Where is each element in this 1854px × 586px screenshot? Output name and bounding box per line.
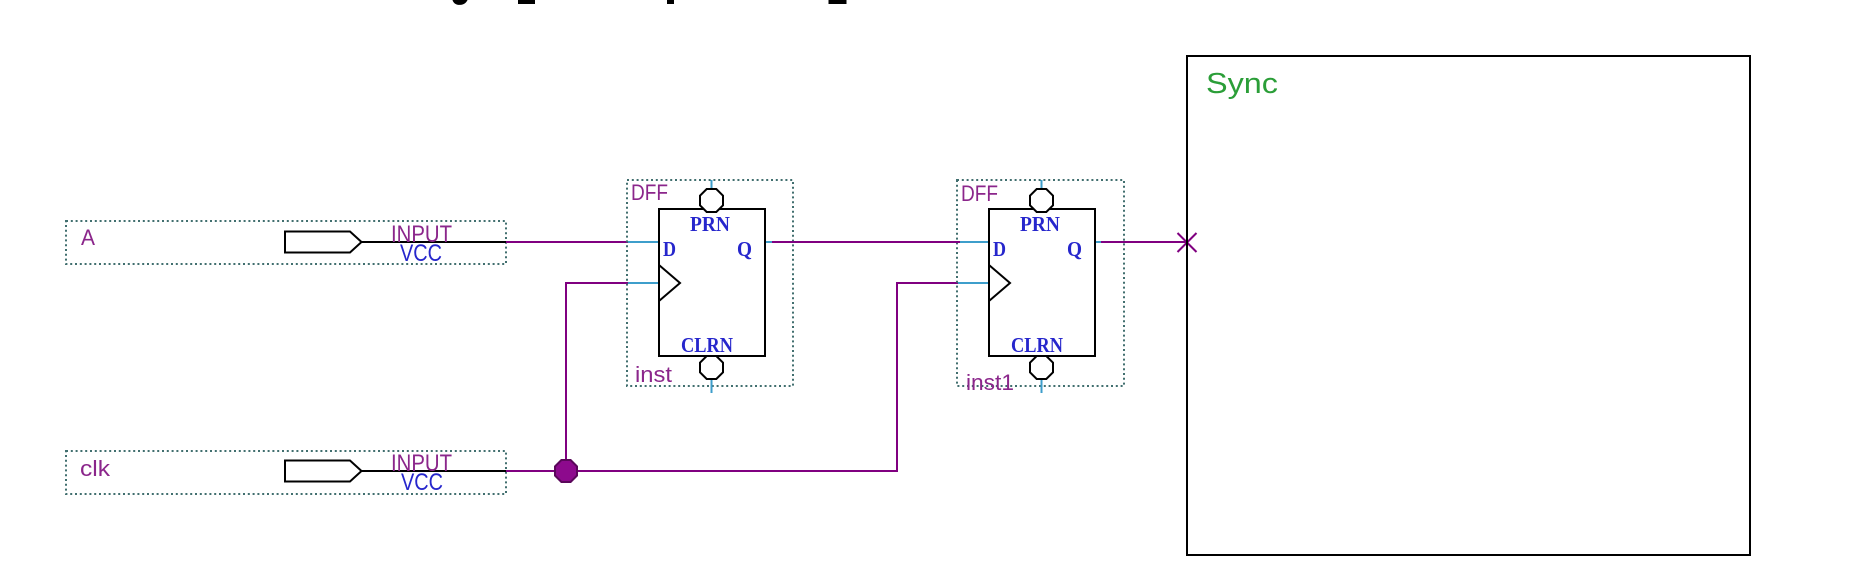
input pin clk selection box <box>66 451 506 494</box>
top clipped text fragment 2 <box>518 0 535 4</box>
DFF inst body <box>659 209 765 356</box>
svg-text:D: D <box>993 237 1006 261</box>
svg-text:CLRN: CLRN <box>1011 333 1063 357</box>
top clipped text fragment 3 <box>667 0 674 4</box>
svg-text:inst: inst <box>635 362 672 387</box>
svg-text:PRN: PRN <box>690 212 730 236</box>
svg-text:A: A <box>81 225 95 250</box>
DFF inst1 pin stub D (cyan) <box>958 241 989 243</box>
svg-text:inst1: inst1 <box>966 370 1014 395</box>
DFF inst clock triangle <box>659 265 680 301</box>
svg-text:PRN: PRN <box>1020 212 1060 236</box>
wire net clk: riser to DFF inst1 clock <box>897 283 959 471</box>
svg-text:VCC: VCC <box>401 469 443 496</box>
wire net q1: DFF inst Q to DFF inst1 D <box>772 241 960 243</box>
svg-text:CLRN: CLRN <box>681 333 733 357</box>
wire net A: pin A to DFF inst D <box>506 241 630 243</box>
DFF inst1 pin stub Q (cyan) <box>1095 241 1124 243</box>
DFF inst1 pin stub clock (cyan) <box>958 282 989 284</box>
top clipped text fragment 1 (descender of y) <box>453 0 468 5</box>
DFF inst1 body <box>989 209 1095 356</box>
input pin clk stub (black) <box>362 470 509 472</box>
DFF inst1 pin stub PRN (cyan) <box>1041 180 1043 190</box>
wire net clk: pin clk horizontal <box>506 470 898 472</box>
DFF inst pin stub clock (cyan) <box>628 282 659 284</box>
svg-text:VCC: VCC <box>400 240 442 267</box>
top clipped text fragment 4 <box>829 0 847 4</box>
DFF inst pin stub PRN (cyan) <box>711 180 713 190</box>
wire net clk: riser to DFF inst clock <box>566 283 630 471</box>
DFF inst selection box <box>627 180 793 386</box>
input pin A symbol <box>285 232 362 253</box>
DFF inst pin stub Q (cyan) <box>765 241 793 243</box>
DFF inst pin stub D (cyan) <box>628 241 659 243</box>
DFF inst CLRN bubble <box>700 356 723 379</box>
input pin clk symbol <box>285 461 362 482</box>
DFF inst pin stub CLRN (cyan) <box>711 378 713 393</box>
input pin A selection box <box>66 221 506 264</box>
DFF inst1 CLRN bubble <box>1030 356 1053 379</box>
block Sync outline <box>1187 56 1750 555</box>
DFF inst1 PRN bubble <box>1030 189 1053 212</box>
svg-text:DFF: DFF <box>961 181 998 206</box>
svg-text:Q: Q <box>737 237 752 261</box>
DFF inst1 selection box <box>957 180 1124 386</box>
svg-text:DFF: DFF <box>631 180 668 205</box>
wire net out: DFF inst1 Q to Sync <box>1101 241 1187 243</box>
svg-text:Sync: Sync <box>1206 68 1278 100</box>
svg-text:clk: clk <box>80 456 111 481</box>
DFF inst PRN bubble <box>700 189 723 212</box>
svg-text:D: D <box>663 237 676 261</box>
svg-text:Q: Q <box>1067 237 1082 261</box>
input pin A stub (black) <box>362 241 509 243</box>
DFF inst1 clock triangle <box>989 265 1010 301</box>
junction on net clk <box>555 460 577 482</box>
DFF inst1 pin stub CLRN (cyan) <box>1041 378 1043 393</box>
open net endpoint X marker <box>1178 233 1197 252</box>
